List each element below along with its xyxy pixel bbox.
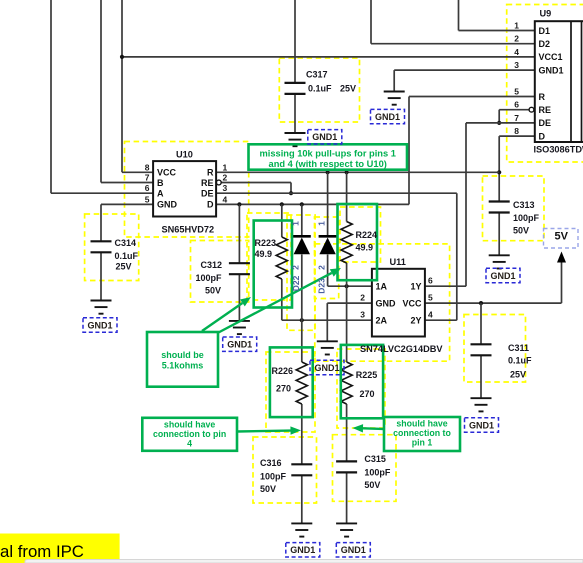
svg-text:5V: 5V [555, 231, 569, 243]
junction RE/DE [497, 121, 501, 125]
svg-text:3: 3 [514, 60, 519, 70]
svg-text:6: 6 [145, 183, 150, 193]
highlight box R223 [247, 213, 291, 300]
wire: C313 to ground [498, 213, 500, 255]
svg-text:0.1uF: 0.1uF [508, 356, 532, 366]
svg-text:6: 6 [514, 100, 519, 110]
wire: RE to DE tie [498, 110, 500, 123]
junction D22-R226 / 2A [300, 318, 304, 322]
svg-text:C315: C315 [364, 454, 386, 464]
svg-text:4: 4 [187, 439, 192, 449]
svg-text:25V: 25V [116, 262, 132, 272]
highlight box U9 [507, 5, 583, 163]
svg-text:DE: DE [201, 189, 214, 199]
wire: U9 pin 8 D [499, 135, 535, 137]
junction C311 tap [479, 301, 483, 305]
capacitor C314 plates [91, 241, 112, 252]
wire: U11 pin 6 1Y [425, 285, 466, 287]
svg-text:50V: 50V [205, 286, 221, 296]
ground symbol U11 [317, 341, 338, 354]
wire: down to ground [393, 70, 395, 91]
resistor R223 [276, 237, 287, 279]
svg-text:25V: 25V [510, 370, 526, 380]
wire: net B vertical from top [100, 0, 102, 183]
svg-text:GND1: GND1 [469, 420, 494, 430]
svg-text:50V: 50V [513, 226, 529, 236]
annotation arrow to R223 lead [202, 303, 242, 331]
svg-text:should be: should be [161, 350, 204, 360]
svg-text:GND: GND [157, 200, 178, 210]
svg-text:270: 270 [276, 384, 291, 394]
wire: R224 down through 1A to R225 [346, 263, 348, 362]
capacitor C313 plates [489, 202, 510, 213]
wire: 1A net to U11 pin 1 [328, 285, 372, 287]
svg-text:connection to pin: connection to pin [153, 429, 226, 439]
annotation box around R223 [254, 221, 292, 308]
ground symbol C311 [471, 398, 492, 411]
annotation box connection to pin 1 [384, 417, 460, 451]
wire: 5V symbol stem [561, 262, 563, 303]
wire: down to C314 [100, 204, 102, 241]
svg-text:SN65HVD72: SN65HVD72 [162, 225, 215, 235]
net label GND1 (C314) [83, 318, 117, 332]
wire: U11 pin 4 2Y [425, 319, 457, 321]
junction D23 tap on R net [326, 170, 330, 174]
highlight box U10 [125, 142, 249, 238]
highlight box C313 [483, 176, 545, 241]
junction D22 tap [300, 202, 304, 206]
svg-text:connection to: connection to [393, 428, 451, 438]
annotation arrow to R224 lead [219, 273, 332, 333]
svg-text:8: 8 [514, 126, 519, 136]
annotation box around R225 [341, 345, 383, 418]
op-amp U10 SN65HVD72 transceiver [153, 161, 216, 216]
junction R223 tap [280, 202, 284, 206]
svg-text:100pF: 100pF [196, 273, 223, 283]
svg-text:1A: 1A [376, 282, 388, 292]
svg-text:GND1: GND1 [227, 340, 252, 350]
wire: 2A net to U11 pin 3 [282, 319, 372, 321]
svg-text:1: 1 [317, 221, 327, 226]
net label GND1 (U9) [371, 109, 405, 123]
wire: U10 pin 4 D across [216, 203, 409, 205]
svg-text:C317: C317 [306, 70, 328, 80]
net label GND1 (C313) [486, 268, 520, 282]
wire: to U10 pin 7 B [101, 182, 153, 184]
svg-text:D: D [207, 200, 214, 210]
svg-text:100pF: 100pF [364, 468, 391, 478]
svg-text:DE: DE [539, 118, 552, 128]
svg-text:pin 1: pin 1 [412, 438, 433, 448]
junction R224 tap on R net [345, 170, 349, 174]
svg-text:2A: 2A [376, 316, 388, 326]
net label GND1 (C312) [223, 337, 257, 351]
svg-text:U9: U9 [540, 9, 552, 19]
svg-text:missing 10k pull-ups for pins: missing 10k pull-ups for pins 1 [260, 149, 396, 159]
wire: U11 pin 2 GND [327, 302, 372, 304]
net label GND1 (C315) [336, 543, 370, 557]
svg-text:GND1: GND1 [87, 320, 112, 330]
wire: U10 pin 3 DE across [216, 192, 457, 194]
wire: down to C312 [238, 204, 240, 263]
wire: to U10 pin 8 VCC [122, 171, 153, 173]
svg-text:GND1: GND1 [312, 132, 337, 142]
svg-text:50V: 50V [364, 480, 380, 490]
wire: down to R223 [281, 204, 283, 237]
svg-text:U10: U10 [176, 150, 193, 160]
svg-text:4: 4 [223, 194, 228, 204]
ground symbol C315 [336, 523, 357, 536]
svg-text:should have: should have [164, 420, 215, 430]
ground symbol C317 [285, 133, 306, 146]
ground symbol C313 [489, 255, 510, 268]
svg-text:3: 3 [360, 310, 365, 320]
wire: D1 vertical from top [458, 0, 460, 31]
capacitor C312 plates [229, 263, 250, 274]
wire: D22 anode down to R226 [301, 255, 303, 363]
wire: C317 from top [294, 0, 296, 83]
highlight box C314 [85, 214, 139, 281]
svg-text:4: 4 [514, 47, 519, 57]
wire: to U9 pin 2 D2 [371, 43, 535, 45]
svg-text:GND1: GND1 [375, 112, 400, 122]
svg-text:6: 6 [428, 276, 433, 286]
svg-text:7: 7 [145, 173, 150, 183]
highlight box C315 [333, 435, 397, 502]
wire: U10 pin 1 R across [216, 171, 499, 173]
wire: VCC vertical from top [121, 0, 123, 172]
svg-text:D1: D1 [539, 26, 551, 36]
svg-text:4: 4 [428, 310, 433, 320]
svg-text:GND1: GND1 [314, 363, 339, 373]
svg-text:RE: RE [539, 105, 552, 115]
capacitor C311 plates [471, 344, 492, 355]
svg-text:7: 7 [514, 113, 519, 123]
svg-text:0.1uF: 0.1uF [115, 251, 139, 261]
svg-text:RE: RE [201, 178, 214, 188]
svg-text:2: 2 [317, 265, 327, 270]
diode D22 [293, 235, 311, 238]
svg-text:50V: 50V [260, 484, 276, 494]
svg-text:A: A [157, 189, 164, 199]
svg-text:R226: R226 [272, 366, 294, 376]
svg-text:C313: C313 [513, 200, 535, 210]
wire: D2 vertical from top [370, 0, 372, 44]
highlight box R224 [340, 207, 381, 262]
highlight box C311 [464, 315, 526, 383]
svg-text:GND1: GND1 [341, 545, 366, 555]
wire: U9 pin 7 DE [466, 122, 535, 124]
highlight box R225 [337, 349, 385, 428]
ground symbol U9 GND1 [384, 92, 405, 105]
resistor R224 [341, 222, 352, 264]
svg-text:0.1uF: 0.1uF [308, 84, 332, 94]
wire: C316 to ground [301, 475, 303, 523]
junction R224-R225 / 1A [345, 284, 349, 288]
highlight box C317 [279, 58, 359, 122]
svg-text:2Y: 2Y [410, 316, 421, 326]
svg-text:D2: D2 [539, 39, 551, 49]
wire: DE down to U11 2Y [456, 193, 458, 320]
capacitor C315 plates [336, 461, 357, 472]
junction C312 tap [237, 202, 241, 206]
svg-text:C312: C312 [201, 260, 223, 270]
svg-text:and 4 (with respect to U10): and 4 (with respect to U10) [269, 159, 387, 169]
annotation arrow to C315 wire [363, 427, 384, 430]
svg-text:2: 2 [514, 34, 519, 44]
wire: RE to DE tie U10 [290, 183, 292, 194]
junction R wire / D net [497, 170, 501, 174]
svg-text:270: 270 [360, 389, 375, 399]
svg-text:5: 5 [428, 293, 433, 303]
wire: VCC1 to U9 pin 4 [122, 56, 535, 58]
svg-text:D: D [539, 131, 546, 141]
svg-text:5.1kohms: 5.1kohms [162, 361, 204, 371]
wire: net A vertical from top [50, 0, 52, 193]
highlight box C312 [191, 241, 249, 303]
svg-text:R: R [207, 168, 214, 178]
wire: down to C311 [480, 303, 482, 344]
wire: C314 to ground [100, 252, 102, 300]
wire: R226 to C316 [301, 404, 303, 464]
highlight box C316 [253, 437, 317, 503]
wire: C311 to ground [480, 355, 482, 398]
svg-text:49.9: 49.9 [255, 249, 273, 259]
svg-text:al from IPC: al from IPC [0, 542, 84, 561]
svg-text:3: 3 [223, 183, 228, 193]
highlight box R226 [266, 352, 315, 432]
svg-text:100pF: 100pF [513, 213, 540, 223]
wire: D23 anode to 1A net [327, 255, 329, 287]
svg-text:1: 1 [223, 162, 228, 172]
svg-text:2: 2 [291, 265, 301, 270]
annotation box should be 5.1kohms [147, 332, 218, 387]
annotation box missing pull-ups [249, 144, 408, 169]
wire: R223 to 2A net [281, 279, 283, 320]
svg-text:GND1: GND1 [539, 65, 564, 75]
svg-text:8: 8 [145, 162, 150, 172]
svg-text:5: 5 [145, 194, 150, 204]
highlight box U11 [315, 244, 450, 361]
wire: U10 pin 2 RE [221, 182, 291, 184]
svg-text:1: 1 [291, 221, 301, 226]
capacitor C316 plates [291, 464, 312, 475]
wire: U10 pin 5 GND [101, 203, 153, 205]
net label GND1 (C311) [465, 418, 499, 432]
svg-text:GND1: GND1 [490, 271, 515, 281]
svg-text:C316: C316 [260, 458, 282, 468]
svg-text:should have: should have [396, 419, 447, 429]
wire: R net down to D23 [327, 172, 329, 236]
wire: C315 to ground [346, 472, 348, 523]
ground symbol C312 [229, 321, 250, 334]
svg-text:R223: R223 [255, 238, 277, 248]
svg-text:2: 2 [360, 293, 365, 303]
net label GND1 (C317) [308, 130, 342, 144]
IC U9 ISO3086TDW isolated transceiver [535, 21, 583, 142]
svg-text:1: 1 [514, 21, 519, 31]
svg-text:VCC1: VCC1 [539, 52, 563, 62]
svg-text:ISO3086TDW: ISO3086TDW [534, 145, 583, 155]
ground symbol C314 [91, 301, 112, 314]
svg-text:1Y: 1Y [410, 282, 421, 292]
wire: R net down to R224 [346, 172, 348, 221]
ground symbol C316 [291, 523, 312, 536]
svg-text:SN74LVC2G14DBV: SN74LVC2G14DBV [360, 344, 443, 354]
wire: U9 pin 5 R [409, 96, 535, 98]
annotation arrow to C316 wire [237, 429, 291, 432]
junction RE/DE U10 [289, 191, 293, 195]
yellow highlighted caption "al from IPC" [0, 534, 120, 563]
resistor R226 [296, 362, 307, 404]
wire: C312 to ground [238, 275, 240, 321]
net label GND1 (C316) [286, 543, 320, 557]
svg-text:D23: D23 [317, 278, 327, 294]
wire: R225 to C315 [346, 404, 348, 461]
svg-text:C311: C311 [508, 343, 529, 353]
highlight box D22 [287, 215, 315, 330]
wire: C317 to ground [294, 94, 296, 133]
annotation box connection to pin 4 [142, 418, 237, 451]
IC U11 SN74LVC2G14DBV inverter [372, 269, 425, 337]
wire: R net vertical [408, 97, 410, 205]
wire: D net down to C313 [498, 136, 500, 201]
wire: to U10 pin 6 A [51, 192, 153, 194]
wire: down to D22 [301, 204, 303, 236]
svg-text:GND: GND [376, 298, 397, 308]
svg-text:U11: U11 [390, 257, 406, 267]
bottom scrollbar strip [25, 560, 583, 563]
wire: DE down to U11 1Y [465, 123, 467, 286]
junction VCC/VCC1 [120, 55, 124, 59]
capacitor C317 plates [285, 83, 306, 94]
svg-text:R: R [539, 92, 546, 102]
annotation box around R226 [270, 347, 313, 417]
net label GND1 (U11) [310, 360, 344, 374]
wire: to U9 pin 1 D1 [459, 30, 535, 32]
resistor R225 [341, 362, 352, 404]
svg-text:2: 2 [223, 173, 228, 183]
wire: U9 pin 6 RE [499, 109, 529, 111]
wire: U9 pin 3 GND1 [394, 69, 535, 71]
wire: U11 pin 5 VCC to 5V [425, 302, 562, 304]
svg-text:5: 5 [514, 87, 519, 97]
svg-text:100pF: 100pF [260, 472, 287, 482]
svg-text:49.9: 49.9 [356, 243, 374, 253]
svg-text:VCC: VCC [157, 168, 177, 178]
wire: down to ground [326, 303, 328, 341]
svg-text:25V: 25V [340, 84, 356, 94]
svg-text:C314: C314 [115, 238, 137, 248]
svg-text:R224: R224 [356, 230, 378, 240]
power symbol 5V [557, 252, 566, 263]
highlight box D23 [315, 217, 339, 299]
svg-text:D22: D22 [291, 275, 301, 291]
svg-text:R225: R225 [356, 370, 378, 380]
svg-text:GND1: GND1 [290, 545, 315, 555]
annotation box around R224 [338, 204, 378, 280]
diode D23 [319, 235, 337, 238]
svg-text:B: B [157, 178, 164, 188]
svg-text:VCC: VCC [402, 298, 422, 308]
